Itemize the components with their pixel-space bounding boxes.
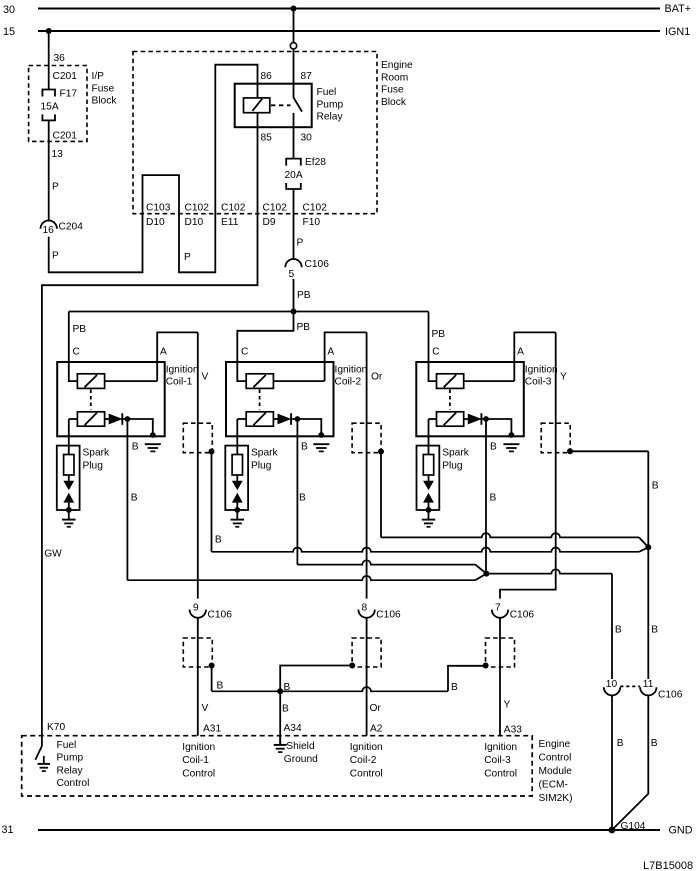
svg-text:Ground: Ground <box>284 754 318 765</box>
svg-text:Coil-1: Coil-1 <box>182 755 209 766</box>
svg-text:(ECM-: (ECM- <box>539 780 568 791</box>
svg-text:I/P: I/P <box>92 71 105 82</box>
svg-text:Room: Room <box>381 72 408 83</box>
svg-text:Fuel: Fuel <box>317 87 337 98</box>
svg-text:Ignition: Ignition <box>182 742 215 753</box>
svg-text:Coil-2: Coil-2 <box>350 755 377 766</box>
svg-text:IGN1: IGN1 <box>665 26 690 38</box>
svg-text:PB: PB <box>297 322 311 333</box>
svg-text:A: A <box>327 347 334 358</box>
svg-text:A34: A34 <box>284 723 302 734</box>
svg-text:30: 30 <box>301 133 313 144</box>
svg-text:K70: K70 <box>47 722 65 733</box>
svg-text:B: B <box>615 625 622 636</box>
svg-text:Fuse: Fuse <box>381 85 404 96</box>
svg-text:15A: 15A <box>41 102 59 113</box>
svg-text:Ignition: Ignition <box>335 364 368 375</box>
svg-text:PB: PB <box>73 324 87 335</box>
svg-text:B: B <box>217 681 224 692</box>
svg-text:G104: G104 <box>621 821 646 832</box>
svg-text:C103: C103 <box>146 203 171 214</box>
svg-text:8: 8 <box>362 602 368 613</box>
svg-text:Pump: Pump <box>317 99 344 110</box>
svg-text:85: 85 <box>261 133 273 144</box>
svg-text:E11: E11 <box>221 217 239 228</box>
svg-text:16: 16 <box>43 225 55 236</box>
svg-text:Coil-2: Coil-2 <box>335 377 362 388</box>
svg-text:Ignition: Ignition <box>484 742 517 753</box>
svg-text:Block: Block <box>92 96 118 107</box>
svg-text:C106: C106 <box>305 259 330 270</box>
svg-text:Plug: Plug <box>251 461 272 472</box>
svg-text:C: C <box>432 347 439 358</box>
svg-text:Ignition: Ignition <box>166 364 199 375</box>
svg-text:20A: 20A <box>285 170 303 181</box>
svg-text:F17: F17 <box>60 89 78 100</box>
svg-text:C204: C204 <box>59 222 84 233</box>
svg-text:C106: C106 <box>376 609 401 620</box>
svg-text:Engine: Engine <box>539 739 571 750</box>
svg-text:PB: PB <box>297 290 311 301</box>
svg-text:PB: PB <box>432 329 446 340</box>
svg-text:A2: A2 <box>370 724 383 735</box>
svg-text:Ignition: Ignition <box>525 364 558 375</box>
svg-text:Fuse: Fuse <box>92 83 115 94</box>
svg-text:F10: F10 <box>303 217 321 228</box>
svg-text:87: 87 <box>301 71 313 82</box>
svg-text:Y: Y <box>504 700 511 711</box>
svg-text:L7B15008: L7B15008 <box>643 860 693 871</box>
svg-text:GND: GND <box>669 824 693 836</box>
svg-text:Engine: Engine <box>381 60 413 71</box>
svg-text:D9: D9 <box>263 217 276 228</box>
svg-text:36: 36 <box>54 53 66 64</box>
svg-text:B: B <box>617 738 624 749</box>
svg-text:Control: Control <box>539 753 572 764</box>
svg-text:Module: Module <box>539 766 573 777</box>
svg-text:86: 86 <box>261 71 273 82</box>
svg-text:Control: Control <box>350 768 383 779</box>
svg-text:15: 15 <box>3 26 15 38</box>
svg-text:Control: Control <box>484 768 517 779</box>
svg-text:Coil-3: Coil-3 <box>484 755 511 766</box>
svg-text:Spark: Spark <box>83 448 111 459</box>
svg-text:B: B <box>132 442 139 453</box>
svg-text:Spark: Spark <box>442 448 470 459</box>
svg-text:C102: C102 <box>221 203 246 214</box>
svg-text:B: B <box>301 442 308 453</box>
svg-text:A: A <box>517 347 524 358</box>
svg-text:P: P <box>52 182 59 193</box>
svg-text:A31: A31 <box>203 724 221 735</box>
svg-text:V: V <box>202 372 209 383</box>
svg-text:B: B <box>282 704 289 715</box>
svg-text:B: B <box>490 442 497 453</box>
svg-text:Coil-3: Coil-3 <box>525 377 552 388</box>
svg-text:Relay: Relay <box>57 765 84 776</box>
svg-text:Ignition: Ignition <box>350 742 383 753</box>
svg-text:Or: Or <box>371 372 383 383</box>
svg-text:Shield: Shield <box>286 741 315 752</box>
svg-text:D10: D10 <box>185 217 204 228</box>
svg-text:9: 9 <box>193 602 199 613</box>
svg-text:B: B <box>451 682 458 693</box>
svg-text:Pump: Pump <box>57 753 84 764</box>
svg-text:B: B <box>651 738 658 749</box>
svg-text:B: B <box>490 493 497 504</box>
svg-text:C: C <box>73 347 80 358</box>
svg-text:Block: Block <box>381 97 407 108</box>
svg-text:SIM2K): SIM2K) <box>539 793 573 804</box>
svg-text:Coil-1: Coil-1 <box>166 377 193 388</box>
svg-text:7: 7 <box>495 602 501 613</box>
svg-text:Ef28: Ef28 <box>305 157 326 168</box>
svg-text:D10: D10 <box>146 217 165 228</box>
svg-text:Fuel: Fuel <box>57 740 77 751</box>
svg-text:P: P <box>184 252 191 263</box>
svg-text:C: C <box>241 347 248 358</box>
svg-text:Relay: Relay <box>317 112 344 123</box>
svg-text:C106: C106 <box>658 689 683 700</box>
svg-text:C106: C106 <box>208 609 233 620</box>
svg-text:Spark: Spark <box>251 448 279 459</box>
svg-text:Control: Control <box>57 778 90 789</box>
svg-text:31: 31 <box>2 824 14 836</box>
svg-text:GW: GW <box>44 549 62 560</box>
svg-text:V: V <box>202 703 209 714</box>
svg-text:11: 11 <box>643 679 654 690</box>
svg-text:B: B <box>652 481 659 492</box>
svg-text:C102: C102 <box>263 203 288 214</box>
svg-text:C102: C102 <box>303 203 328 214</box>
svg-text:B: B <box>284 682 291 693</box>
svg-text:Plug: Plug <box>83 461 104 472</box>
svg-text:B: B <box>299 493 306 504</box>
svg-text:Control: Control <box>182 768 215 779</box>
svg-text:A: A <box>160 347 167 358</box>
svg-text:13: 13 <box>52 149 64 160</box>
svg-text:Or: Or <box>370 703 382 714</box>
svg-text:A33: A33 <box>504 725 522 736</box>
svg-text:30: 30 <box>3 4 15 16</box>
svg-text:Plug: Plug <box>442 461 463 472</box>
svg-text:C102: C102 <box>185 203 210 214</box>
svg-text:P: P <box>297 238 304 249</box>
svg-text:10: 10 <box>606 679 618 690</box>
svg-text:B: B <box>131 493 138 504</box>
svg-text:C106: C106 <box>510 609 535 620</box>
svg-text:B: B <box>651 625 658 636</box>
svg-text:C201: C201 <box>53 71 78 82</box>
svg-text:Y: Y <box>560 372 567 383</box>
svg-text:B: B <box>215 535 222 546</box>
svg-text:5: 5 <box>289 269 295 280</box>
svg-text:BAT+: BAT+ <box>665 3 692 15</box>
svg-text:C201: C201 <box>53 131 78 142</box>
svg-text:P: P <box>52 251 59 262</box>
